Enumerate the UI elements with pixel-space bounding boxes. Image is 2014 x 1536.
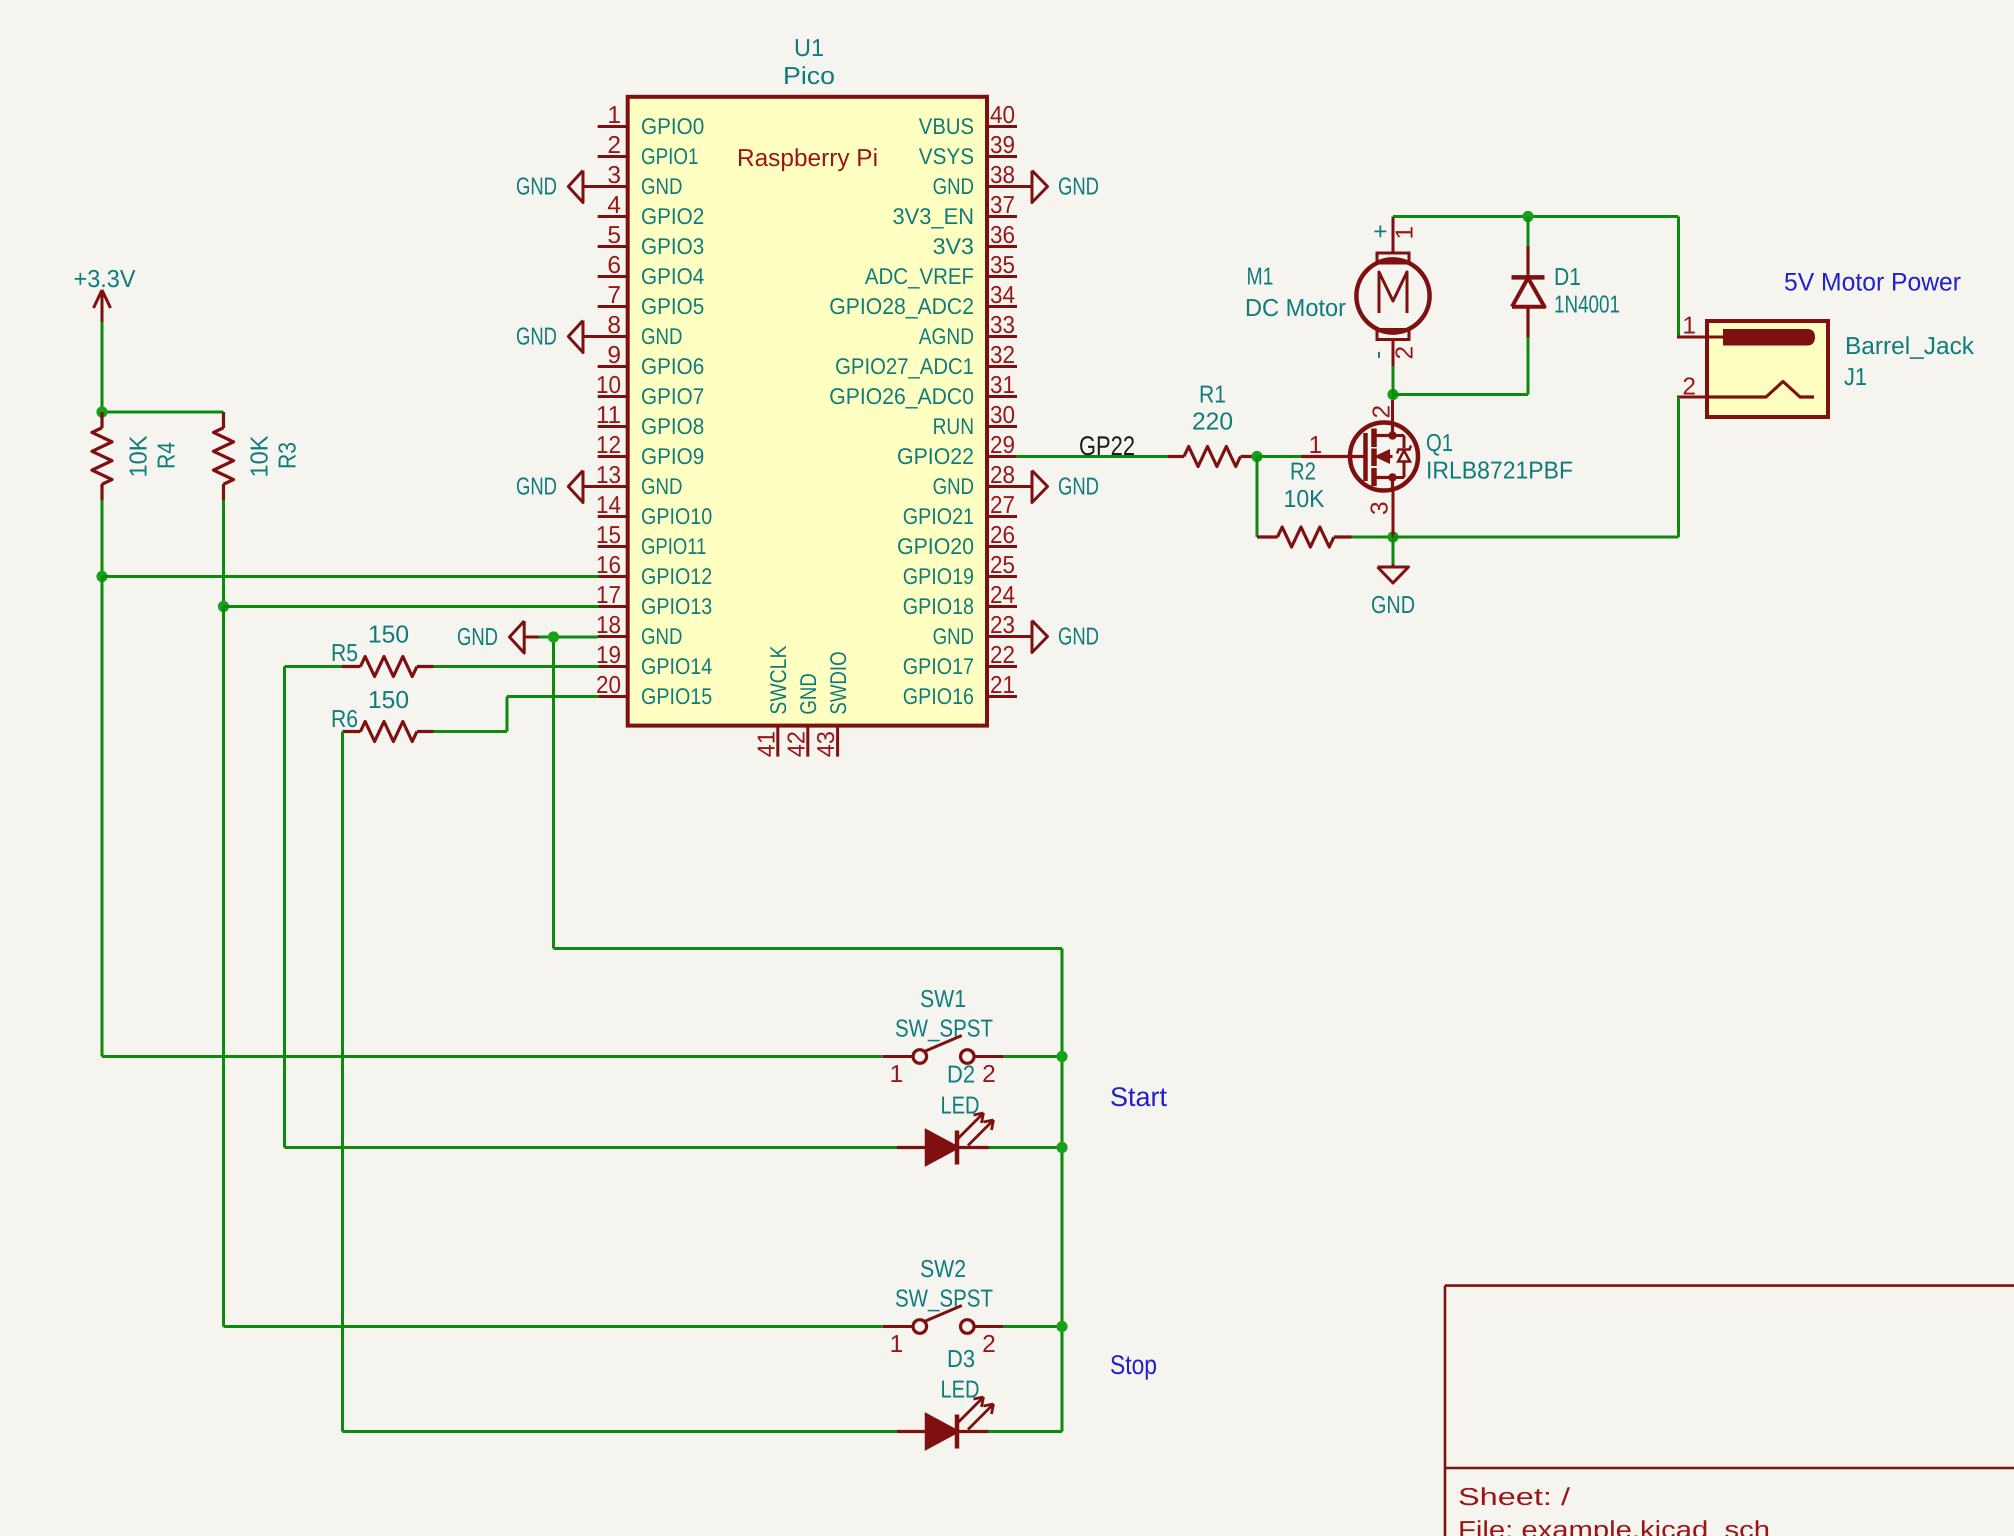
wire GPIO13 down to SW2 [222,607,225,1327]
svg-text:GPIO28_ADC2: GPIO28_ADC2 [829,293,974,319]
Q1 source pin [1392,491,1395,538]
svg-text:SW2: SW2 [920,1256,966,1283]
U1 pin 35 ADC_VREF [865,252,1017,289]
svg-text:10K: 10K [126,435,153,478]
svg-text:Pico: Pico [783,63,835,90]
svg-text:J1: J1 [1844,364,1867,391]
power symbol GND at pin 18 [457,621,541,653]
svg-text:GPIO9: GPIO9 [641,443,704,469]
svg-text:1: 1 [890,1331,904,1358]
svg-text:GND: GND [516,324,557,351]
svg-text:14: 14 [596,492,621,519]
svg-text:7: 7 [607,282,621,309]
svg-text:GND: GND [933,623,974,649]
U1 pin 22 GPIO17 [903,642,1017,679]
svg-text:GPIO15: GPIO15 [641,683,712,709]
svg-text:10K: 10K [247,435,274,478]
U1 pin 9 GPIO6 [598,342,705,379]
svg-text:11: 11 [596,402,621,429]
svg-text:GPIO7: GPIO7 [641,383,704,409]
switch SW1 SW_SPST [882,986,1004,1088]
U1 pin 29 GPIO22 [897,432,1017,469]
svg-text:GPIO5: GPIO5 [641,293,704,319]
wire D2 right [989,1146,1063,1149]
U1 pin 3 GND [598,162,683,199]
wire GND bus down right [1061,949,1064,1432]
svg-text:LED: LED [941,1377,980,1404]
svg-text:1: 1 [1309,432,1323,459]
U1 pin 25 GPIO19 [903,552,1017,589]
U1 pin 37 3V3_EN [893,192,1018,229]
svg-text:GPIO3: GPIO3 [641,233,704,259]
svg-text:+: + [1368,224,1395,238]
svg-text:-: - [1365,351,1392,359]
svg-text:12: 12 [596,432,621,459]
switch SW2 SW_SPST [882,1256,1004,1358]
svg-text:36: 36 [990,222,1015,249]
wire D3 right [989,1430,1063,1433]
wire SW1 left [102,1055,882,1058]
svg-text:24: 24 [990,582,1015,609]
svg-text:30: 30 [990,402,1015,429]
svg-text:GND: GND [641,473,682,499]
U1 pin 5 GPIO3 [598,222,705,259]
svg-text:GND: GND [641,323,682,349]
svg-text:9: 9 [607,342,621,369]
U1 pin 2 GPIO1 [598,132,699,169]
U1 pin 12 GPIO9 [596,432,704,469]
wire GPIO14 to R5 [434,665,599,668]
svg-text:4: 4 [607,192,621,219]
svg-text:M1: M1 [1247,264,1274,291]
U1 pin 1 GPIO0 [598,102,705,139]
wire jack pin2 down [1677,397,1680,537]
svg-text:25: 25 [990,552,1015,579]
svg-text:3: 3 [1367,501,1394,515]
svg-text:DC Motor: DC Motor [1245,295,1346,322]
svg-text:GPIO26_ADC0: GPIO26_ADC0 [829,383,974,409]
U1 pin 36 3V3 [933,222,1017,259]
svg-text:5: 5 [607,222,621,249]
U1 pin 21 GPIO16 [903,672,1017,709]
svg-text:AGND: AGND [919,323,974,349]
svg-text:41: 41 [753,731,780,757]
svg-text:U1: U1 [794,35,824,62]
U1 pin 39 VSYS [919,132,1017,169]
wire +3.3V down [101,322,104,412]
resistor R2 10K [1257,459,1352,548]
svg-text:1N4001: 1N4001 [1554,292,1620,319]
svg-text:D2: D2 [947,1062,975,1089]
U1 pin 33 AGND [919,312,1017,349]
svg-text:GPIO12: GPIO12 [641,563,712,589]
svg-text:GPIO10: GPIO10 [641,503,712,529]
power symbol GND (right, pin 38) [1017,171,1099,203]
power symbol GND (right, pin 28) [1017,471,1099,503]
svg-text:GPIO18: GPIO18 [903,593,974,619]
LED D3 [897,1346,994,1449]
wire junction down to R2 [1256,457,1259,538]
U1 pin 30 RUN [933,402,1017,439]
U1 pin 4 GPIO2 [598,192,705,229]
U1 pin 31 GPIO26_ADC0 [829,372,1017,409]
wire GND bus down [552,637,555,949]
U1 pin 13 GND [596,462,682,499]
junction drain/motor/D1 [1387,389,1398,400]
svg-text:16: 16 [596,552,621,579]
svg-text:+3.3V: +3.3V [74,266,137,293]
svg-text:20: 20 [596,672,621,699]
svg-text:33: 33 [990,312,1015,339]
svg-text:5V Motor Power: 5V Motor Power [1784,269,1961,297]
svg-text:10: 10 [596,372,621,399]
svg-text:39: 39 [990,132,1015,159]
U1 pin 19 GPIO14 [596,642,712,679]
wire R1 to Q1 gate [1257,455,1302,458]
svg-text:2: 2 [982,1061,996,1088]
power symbol +3.3V [74,266,137,322]
wire motor/D1 bottom link [1393,393,1528,396]
U1 pin 23 GND [933,612,1017,649]
U1 pin 14 GPIO10 [596,492,712,529]
svg-text:GPIO6: GPIO6 [641,353,704,379]
svg-text:GPIO14: GPIO14 [641,653,712,679]
svg-text:GPIO17: GPIO17 [903,653,974,679]
svg-text:R2: R2 [1290,459,1316,486]
svg-text:27: 27 [990,492,1015,519]
svg-text:Sheet: /: Sheet: / [1458,1484,1570,1511]
wire D2 left [285,1146,898,1149]
svg-text:VSYS: VSYS [919,143,974,169]
svg-text:GND: GND [516,174,557,201]
resistor R3 10K [214,412,302,500]
U1 pin 41 SWCLK [753,646,791,758]
svg-text:GPIO21: GPIO21 [903,503,974,529]
svg-text:8: 8 [607,312,621,339]
U1 pin 10 GPIO7 [596,372,704,409]
svg-text:R4: R4 [154,442,181,469]
svg-text:220: 220 [1192,409,1233,436]
U1 pin 7 GPIO5 [598,282,705,319]
svg-text:GND: GND [641,173,682,199]
resistor R6 150 [331,687,434,742]
svg-text:GP22: GP22 [1079,431,1135,461]
svg-text:GPIO2: GPIO2 [641,203,704,229]
wire jack to source junction [1393,536,1679,539]
svg-text:R3: R3 [275,442,302,469]
svg-text:GND: GND [457,624,498,651]
svg-text:23: 23 [990,612,1015,639]
wire R2 to source junction [1352,536,1394,539]
svg-text:40: 40 [990,102,1015,129]
svg-text:2: 2 [982,1331,996,1358]
wire GPIO22 to R1 [1016,455,1168,458]
junction R3/GPIO13 [218,601,229,612]
svg-text:1: 1 [1392,226,1419,240]
svg-text:18: 18 [596,612,621,639]
svg-text:19: 19 [596,642,621,669]
svg-text:GND: GND [1058,474,1099,501]
Q1 drain pin [1391,400,1394,423]
svg-text:VBUS: VBUS [919,113,974,139]
junction D2/GND bus [1056,1142,1067,1153]
svg-text:Raspberry Pi: Raspberry Pi [737,145,878,172]
wire motor to power rail [1393,215,1528,218]
svg-text:1: 1 [1682,313,1696,340]
wire SW2 left [224,1325,883,1328]
svg-text:GPIO11: GPIO11 [641,533,706,559]
svg-text:150: 150 [368,687,409,714]
resistor R5 150 [331,622,434,677]
svg-text:GND: GND [1058,174,1099,201]
svg-text:17: 17 [596,582,621,609]
svg-text:GPIO0: GPIO0 [641,113,704,139]
svg-text:GPIO8: GPIO8 [641,413,704,439]
transistor Q1 IRLB8721PBF [1302,405,1574,515]
U1 pin 38 GND [933,162,1017,199]
U1 pin 24 GPIO18 [903,582,1017,619]
svg-text:GND: GND [1371,592,1415,619]
svg-text:Barrel_Jack: Barrel_Jack [1845,333,1975,360]
svg-text:LED: LED [941,1093,980,1120]
junction SW1/GND bus [1056,1051,1067,1062]
svg-text:GPIO27_ADC1: GPIO27_ADC1 [835,353,974,379]
svg-text:GPIO20: GPIO20 [897,533,974,559]
svg-text:SWCLK: SWCLK [765,646,791,715]
wire +3.3V rail to R3 [102,411,224,414]
svg-text:GND: GND [641,623,682,649]
svg-text:SW1: SW1 [920,986,966,1013]
IC U1 Raspberry Pi Pico body [628,97,987,726]
U1 pin 17 GPIO13 [596,582,712,619]
junction SW2/GND bus [1056,1321,1067,1332]
svg-text:21: 21 [990,672,1015,699]
svg-text:10K: 10K [1284,486,1326,513]
U1 pin 40 VBUS [919,102,1017,139]
svg-text:2: 2 [1392,346,1419,360]
svg-text:SWDIO: SWDIO [825,651,851,714]
U1 pin 18 GND [596,612,682,649]
wire pin18 to GND flag [539,636,598,639]
U1 pin 15 GPIO11 [596,522,706,559]
junction source/R2/GND [1387,531,1398,542]
svg-text:13: 13 [596,462,621,489]
wire R6 left down to D3 [341,732,344,1432]
svg-text:3V3_EN: 3V3_EN [893,203,975,229]
svg-text:38: 38 [990,162,1015,189]
svg-text:32: 32 [990,342,1015,369]
U1 pin 6 GPIO4 [598,252,705,289]
svg-text:2: 2 [607,132,621,159]
svg-text:SW_SPST: SW_SPST [895,1016,993,1043]
svg-text:R1: R1 [1199,382,1226,409]
wire D3 left [343,1430,898,1433]
wire SW2 right [1004,1325,1062,1328]
wire GND bus across [554,947,1063,950]
svg-text:GPIO1: GPIO1 [641,143,698,169]
power symbol GND (left) [516,471,599,503]
wire R3 to GPIO13 [222,500,225,607]
U1 pin 16 GPIO12 [596,552,712,589]
motor M1 DC Motor [1245,217,1430,368]
U1 pin 20 GPIO15 [596,672,712,709]
resistor R1 220 [1168,382,1257,467]
svg-text:GPIO13: GPIO13 [641,593,712,619]
svg-text:GPIO19: GPIO19 [903,563,974,589]
svg-text:GPIO16: GPIO16 [903,683,974,709]
U1 pin 27 GPIO21 [903,492,1017,529]
junction D1 top [1522,211,1533,222]
svg-text:SW_SPST: SW_SPST [895,1286,993,1313]
U1 pin 34 GPIO28_ADC2 [829,282,1017,319]
power symbol GND below Q1 [1371,537,1415,619]
U1 pin 32 GPIO27_ADC1 [835,342,1017,379]
svg-text:43: 43 [813,731,840,757]
wire R5 left down to D2 [285,665,343,668]
U1 pin 28 GND [933,462,1017,499]
wire GPIO12 [102,575,599,578]
svg-text:GND: GND [933,173,974,199]
svg-text:GND: GND [1058,624,1099,651]
svg-text:Start: Start [1110,1082,1167,1112]
svg-text:GND: GND [516,474,557,501]
U1 pin 26 GPIO20 [897,522,1017,559]
svg-text:GND: GND [795,673,821,714]
U1 pin 42 GND [783,673,821,757]
junction pin18 GND [548,631,559,642]
svg-text:D1: D1 [1554,264,1581,291]
wire GPIO15 jog [507,695,599,698]
svg-text:GPIO4: GPIO4 [641,263,704,289]
wire motor pin2 down [1392,366,1395,395]
svg-text:1: 1 [607,102,621,129]
resistor R4 10K [92,412,181,500]
U1 pin 11 GPIO8 [596,402,704,439]
wire SW1 right [1004,1055,1062,1058]
svg-text:Q1: Q1 [1426,430,1453,457]
svg-text:150: 150 [368,622,409,649]
LED D2 [897,1062,994,1165]
svg-text:GPIO22: GPIO22 [897,443,974,469]
svg-text:2: 2 [1682,374,1696,401]
svg-text:31: 31 [990,372,1015,399]
svg-text:29: 29 [990,432,1015,459]
svg-text:File: example.kicad_sch: File: example.kicad_sch [1458,1517,1770,1536]
svg-text:Stop: Stop [1110,1350,1157,1380]
svg-text:42: 42 [783,731,810,757]
svg-text:GND: GND [933,473,974,499]
svg-text:6: 6 [607,252,621,279]
U1 pin 8 GND [598,312,683,349]
power symbol GND (right, pin 23) [1017,621,1099,653]
junction R1/gate/R2 [1251,451,1262,462]
svg-text:3V3: 3V3 [933,233,974,259]
diode D1 1N4001 [1512,217,1621,395]
junction +3.3V / R4 [96,406,107,417]
svg-text:ADC_VREF: ADC_VREF [865,263,974,289]
svg-text:IRLB8721PBF: IRLB8721PBF [1426,458,1573,485]
svg-text:35: 35 [990,252,1015,279]
svg-text:1: 1 [890,1061,904,1088]
connector J1 Barrel_Jack [1677,313,1975,418]
svg-text:28: 28 [990,462,1015,489]
power symbol GND (left) [516,171,599,203]
svg-text:R5: R5 [331,640,358,667]
svg-text:R6: R6 [331,706,358,733]
svg-text:RUN: RUN [933,413,974,439]
wire GPIO12 down to SW1 [101,577,104,1057]
wire power rail to jack [1528,215,1679,218]
junction R4/GPIO12 [96,571,107,582]
svg-text:37: 37 [990,192,1015,219]
sheet title block frame [1445,1286,2014,1536]
svg-text:3: 3 [607,162,621,189]
svg-text:D3: D3 [947,1346,975,1373]
svg-text:22: 22 [990,642,1015,669]
power symbol GND (left) [516,321,599,353]
wire R4 to GPIO12 [101,500,104,577]
svg-text:15: 15 [596,522,621,549]
svg-text:34: 34 [990,282,1015,309]
wire GPIO13 [224,605,599,608]
U1 pin 43 SWDIO [813,651,851,757]
svg-text:26: 26 [990,522,1015,549]
